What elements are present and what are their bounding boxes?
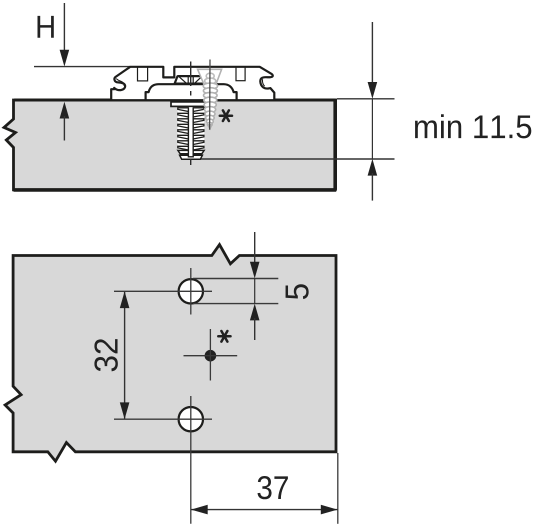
plate slot right (thin) xyxy=(236,67,245,81)
wood screw coils xyxy=(203,83,217,89)
wood panel plan view xyxy=(5,245,336,462)
37 extension right xyxy=(337,453,339,524)
screw position dot xyxy=(205,350,217,362)
plate slot left (thin) xyxy=(138,67,148,81)
dot crosshair xyxy=(184,329,238,381)
wood screw centerline xyxy=(209,60,211,130)
mounting plate section silhouette xyxy=(111,67,274,100)
37 label xyxy=(258,476,288,499)
euro screw head boss xyxy=(175,76,206,84)
euro screw core xyxy=(188,107,193,157)
euro screw flange xyxy=(171,102,211,107)
asterisk side view xyxy=(220,110,232,121)
hole top crosshair xyxy=(114,268,212,315)
system hole bottom xyxy=(179,407,203,431)
H dimension line xyxy=(63,3,65,52)
asterisk plan view xyxy=(218,331,230,342)
5 dimension tangent lines xyxy=(193,279,278,304)
min 11.5 label xyxy=(415,114,531,138)
H reference line (top of plate) xyxy=(34,66,130,68)
wood screw thread seen in head xyxy=(206,73,214,79)
wood screw (alternative, gray) head xyxy=(198,69,222,128)
euro screw centerline xyxy=(190,62,192,166)
euro screw shank silhouette xyxy=(178,107,205,159)
wood screw tip xyxy=(208,125,212,129)
5 dimension arrows xyxy=(254,232,256,264)
min 11.5 lower reference line xyxy=(200,158,395,160)
plate hook inner line left xyxy=(116,79,124,87)
wood panel side section xyxy=(4,99,336,190)
32 dimension line xyxy=(124,292,126,419)
euro screw threads right xyxy=(193,108,204,150)
boss hatch lines xyxy=(179,77,202,84)
plate hook inner line right xyxy=(262,79,264,86)
euro screw tip band 1 xyxy=(178,150,204,153)
37 dimension line xyxy=(191,509,338,511)
H arrow up xyxy=(60,102,70,119)
5 label (rotated) xyxy=(286,284,309,299)
32 label (rotated) xyxy=(94,339,117,371)
min 11.5 dimension xyxy=(337,98,395,100)
base plate body (mound) xyxy=(146,84,237,100)
euro screw threads left xyxy=(178,108,189,150)
H label xyxy=(38,16,54,38)
euro screw tip band 2 xyxy=(180,155,203,159)
system hole top xyxy=(179,279,203,303)
hole bottom crosshair + 37 extension xyxy=(114,396,212,524)
H arrow down xyxy=(60,50,70,67)
